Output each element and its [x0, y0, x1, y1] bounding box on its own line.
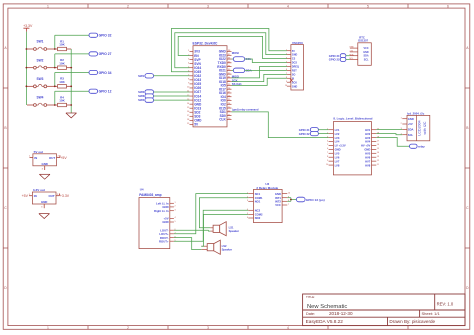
svg-text:TITLE:: TITLE:: [306, 295, 315, 299]
svg-text:HV3: HV3: [365, 136, 371, 140]
wire net GPIO 34: [55, 73, 89, 87]
svg-text:8. Logic_Level_Bidirectional: 8. Logic_Level_Bidirectional: [333, 116, 372, 120]
svg-text:REV: 1.0: REV: 1.0: [437, 301, 454, 306]
wire LOUT- to LS1-: [174, 229, 211, 232]
svg-text:10: 10: [285, 85, 287, 87]
svg-text:DREQ: DREQ: [292, 66, 299, 69]
svg-text:Date:: Date:: [306, 312, 315, 316]
svg-text:2: 2: [127, 326, 129, 330]
svg-text:6: 6: [247, 217, 248, 219]
svg-text:DS1307: DS1307: [358, 39, 368, 43]
svg-text:CS: CS: [292, 58, 296, 61]
svg-text:Speaker: Speaker: [229, 229, 239, 233]
junction dots ground rail: [70, 67, 72, 106]
net label SCK and wire to VS1053 pin9: [232, 74, 287, 82]
svg-text:GND: GND: [408, 117, 414, 121]
svg-text:11: 11: [377, 164, 379, 166]
svg-text:(gnd) relay command: (gnd) relay command: [232, 107, 259, 111]
wire net GPIO 27: [55, 54, 89, 68]
svg-text:LV1: LV1: [335, 128, 340, 132]
svg-text:INT2: INT2: [275, 200, 281, 204]
junction dots GPIO branches: [54, 48, 56, 106]
svg-text:Drawn By: pisicaverde: Drawn By: pisicaverde: [389, 319, 435, 324]
wire INT1 INT2 tie: [287, 198, 296, 202]
svg-text:LV +3.3V: LV +3.3V: [335, 144, 346, 148]
svg-text:3: 3: [207, 326, 209, 330]
svg-text:IN: IN: [34, 156, 37, 160]
svg-text:Sheet: 1/1: Sheet: 1/1: [422, 311, 441, 316]
net label SS and wire to VS1053 pin10: [232, 78, 287, 86]
resistor R3 10K: [55, 77, 71, 88]
svg-text:9: 9: [286, 81, 287, 83]
svg-text:10K: 10K: [59, 80, 65, 84]
svg-text:HV8: HV8: [365, 163, 371, 167]
svg-text:16: 16: [377, 144, 379, 146]
svg-text:LV6: LV6: [335, 155, 340, 159]
svg-text:1: 1: [175, 202, 176, 204]
power flag +3.3V: [23, 24, 33, 32]
svg-text:GPIO 12: GPIO 12: [99, 90, 112, 94]
svg-text:CLK: CLK: [219, 118, 226, 122]
wire ROUT- to LS2-: [174, 238, 201, 250]
voltage regulator block 5V out: [29, 150, 60, 170]
net port SW4 at ESP32: [138, 98, 189, 102]
wire net GPIO 12: [55, 91, 89, 105]
svg-text:GPIO 27: GPIO 27: [99, 52, 112, 56]
net port relay: [410, 144, 426, 148]
svg-text:Right LL In: Right LL In: [154, 209, 169, 213]
svg-text:LS1: LS1: [229, 226, 234, 230]
svg-text:5V out: 5V out: [34, 150, 43, 154]
svg-text:+3,3V: +3,3V: [23, 24, 33, 28]
svg-text:NC1: NC1: [255, 192, 261, 196]
svg-text:OUT: OUT: [48, 194, 54, 198]
wire resistor ground rail: [70, 49, 72, 113]
svg-text:7: 7: [327, 152, 328, 154]
svg-text:3: 3: [207, 4, 209, 8]
svg-text:GND: GND: [364, 148, 370, 152]
svg-text:U4: U4: [140, 187, 144, 191]
svg-text:1: 1: [47, 4, 49, 8]
svg-text:12: 12: [377, 160, 379, 162]
relay module U3 2 Relay Module: [247, 182, 290, 223]
wire LOUT+ to relay NC1: [174, 194, 248, 234]
svg-text:EasyEDA V5.8.22: EasyEDA V5.8.22: [306, 319, 344, 324]
wire HV3 to relay port: [376, 138, 409, 147]
svg-text:Speaker: Speaker: [222, 248, 232, 252]
svg-text:4: 4: [327, 140, 328, 142]
svg-text:10K: 10K: [59, 99, 65, 103]
svg-text:ESP32_DevKitC: ESP32_DevKitC: [193, 41, 219, 45]
wire net A (IO35 to VS1053 pin1): [171, 29, 287, 72]
svg-text:SCL: SCL: [408, 133, 414, 137]
net port SW1 at ESP32: [138, 74, 189, 78]
net label MISO and wire to VS1053 pin8: [232, 66, 287, 78]
wire LS2+ to relay COM2: [201, 214, 248, 246]
svg-text:2: 2: [401, 123, 402, 125]
svg-text:GND: GND: [292, 54, 298, 57]
ground for 5V regulator: [39, 174, 50, 179]
svg-text:2: 2: [175, 206, 176, 208]
svg-text:14: 14: [377, 152, 379, 154]
svg-text:HV5: HV5: [365, 151, 371, 155]
svg-text:GPIO 22: GPIO 22: [329, 58, 340, 62]
svg-text:10: 10: [326, 164, 328, 166]
svg-text:COM2: COM2: [255, 213, 263, 217]
svg-text:3: 3: [247, 200, 248, 202]
svg-text:relay: relay: [418, 144, 425, 148]
svg-text:LS2: LS2: [222, 244, 227, 248]
svg-text:MOSI: MOSI: [232, 51, 239, 55]
svg-text:4: 4: [287, 326, 289, 330]
svg-text:RST: RST: [292, 70, 297, 73]
svg-text:4: 4: [287, 4, 289, 8]
svg-text:6: 6: [327, 148, 328, 150]
resistor R1 10K: [55, 39, 71, 50]
svg-text:GPIO 32: GPIO 32: [99, 34, 112, 38]
switch SW4: [27, 96, 55, 107]
svg-text:+5V: +5V: [408, 122, 413, 126]
svg-text:NC2: NC2: [255, 209, 261, 213]
svg-text:HV +5V: HV +5V: [361, 144, 371, 148]
svg-text:GND: GND: [41, 200, 47, 204]
svg-text:New Schematic: New Schematic: [307, 304, 347, 310]
svg-text:9: 9: [327, 160, 328, 162]
net port GPIO 13 (po): [296, 197, 324, 202]
svg-text:+5V: +5V: [60, 156, 67, 160]
svg-text:OUT: OUT: [49, 156, 55, 160]
svg-text:LV5: LV5: [335, 151, 340, 155]
wire ROUT+ to relay NC2: [174, 210, 248, 241]
svg-text:LV7: LV7: [335, 159, 340, 163]
speaker LS1: [210, 222, 239, 236]
svg-text:VCC: VCC: [275, 203, 281, 207]
svg-text:SDA: SDA: [408, 128, 414, 132]
net label relay command and wire IO15 to LV3: [232, 107, 329, 137]
rtc U2 DS1307: [349, 35, 371, 65]
svg-text:3: 3: [175, 210, 176, 212]
svg-text:VCC: VCC: [364, 47, 369, 50]
switch SW3: [27, 77, 55, 88]
svg-text:GND: GND: [162, 220, 168, 224]
svg-text:10K: 10K: [59, 61, 65, 65]
junction dots +3.3V rail: [26, 48, 28, 87]
svg-text:10K: 10K: [59, 43, 65, 47]
svg-text:INT1: INT1: [275, 196, 281, 200]
svg-text:with I2C: with I2C: [423, 121, 427, 134]
lcd display LCD2004 with I2C: [401, 112, 430, 141]
net port GPIO 22 at LV2: [299, 132, 329, 136]
net port GPIO 32: [89, 33, 112, 37]
svg-text:15: 15: [377, 148, 379, 150]
net port SDA at IO21: [232, 68, 253, 73]
svg-text:10: 10: [288, 192, 290, 194]
svg-text:SCL: SCL: [364, 59, 369, 62]
svg-text:+5V: +5V: [22, 194, 29, 198]
wire +3.3V rail: [25, 32, 27, 105]
wire net C (EN to VS1053 pin3): [178, 36, 287, 58]
svg-text:7: 7: [288, 204, 289, 206]
wire HV2 to LCD SCL: [376, 134, 402, 135]
svg-text:8: 8: [327, 156, 328, 158]
svg-text:5: 5: [327, 144, 328, 146]
svg-text:17: 17: [377, 140, 379, 142]
svg-text:13: 13: [377, 156, 379, 158]
svg-text:LV4: LV4: [335, 140, 340, 144]
net port SCL at IO22: [232, 57, 252, 62]
svg-text:GPIO 34: GPIO 34: [99, 71, 112, 75]
svg-text:5: 5: [367, 4, 369, 8]
svg-text:HV1: HV1: [365, 128, 371, 132]
no-connect cross VS1053 pin 8: [290, 79, 293, 82]
switch SW1: [27, 40, 55, 51]
net port GPIO 12: [89, 89, 112, 93]
ground under resistor rail: [66, 113, 77, 118]
svg-text:COM1: COM1: [255, 196, 263, 200]
svg-text:SDA: SDA: [349, 53, 354, 56]
power flag +5V at 3.3V regulator input: [22, 194, 29, 198]
svg-text:HV2: HV2: [365, 132, 371, 136]
connector P1 VS1053: [285, 41, 304, 90]
svg-text:GND: GND: [292, 85, 298, 88]
svg-text:HV6: HV6: [365, 155, 371, 159]
wire SDA to VS1053 pin6: [245, 69, 287, 71]
svg-text:ROUT+: ROUT+: [159, 239, 169, 243]
svg-text:SW4: SW4: [138, 98, 145, 102]
svg-text:1: 1: [47, 326, 49, 330]
mcu U1 ESP32_DevKitC: [187, 41, 232, 127]
svg-text:LV2: LV2: [335, 132, 340, 136]
svg-text:SW2: SW2: [37, 58, 44, 62]
svg-text:NO1: NO1: [255, 200, 261, 204]
svg-text:SW1: SW1: [37, 40, 44, 44]
svg-text:1: 1: [401, 118, 402, 120]
net port GPIO 34: [89, 70, 112, 74]
net port GPIO 22 at RTC SCL: [329, 58, 350, 62]
net label MOSI: [232, 51, 239, 55]
svg-text:GND: GND: [41, 162, 47, 166]
voltage regulator block 3.3V out: [29, 188, 60, 208]
svg-text:GND: GND: [363, 51, 369, 54]
svg-text:SW4: SW4: [37, 96, 44, 100]
svg-text:+3.3V: +3.3V: [60, 194, 70, 198]
speaker LS2: [201, 240, 232, 254]
svg-text:GPIO 13 (po): GPIO 13 (po): [306, 198, 325, 202]
svg-text:IN: IN: [34, 194, 37, 198]
svg-text:GND: GND: [349, 47, 354, 49]
svg-text:2018-12-30: 2018-12-30: [329, 311, 353, 316]
svg-text:SW1: SW1: [138, 74, 145, 78]
switch SW2: [27, 58, 55, 69]
svg-text:SCK: SCK: [292, 81, 297, 84]
svg-text:SDA: SDA: [364, 55, 369, 58]
svg-text:6: 6: [447, 4, 449, 8]
resistor R2 10K: [55, 58, 71, 69]
svg-text:LV8: LV8: [335, 163, 340, 167]
svg-text:2: 2: [127, 4, 129, 8]
svg-text:DCS: DCS: [292, 62, 297, 65]
svg-text:3: 3: [327, 136, 328, 138]
svg-text:5: 5: [175, 221, 176, 223]
svg-text:SW3: SW3: [37, 77, 44, 81]
svg-text:SO: SO: [292, 73, 296, 76]
svg-text:3.3V out: 3.3V out: [33, 188, 45, 192]
power flag +5V: [60, 155, 67, 160]
wire LS1+ to relay COM1: [199, 198, 248, 228]
svg-text:5V: 5V: [292, 50, 295, 53]
svg-text:HV7: HV7: [365, 159, 371, 163]
svg-text:lcd_2004_i2c: lcd_2004_i2c: [407, 112, 425, 116]
net port GPIO 21 at RTC SDA: [329, 54, 350, 58]
ground for 3.3V regulator: [39, 214, 50, 219]
amplifier U4 PAM8403_amp: [139, 187, 176, 248]
svg-text:PAM8403_amp: PAM8403_amp: [139, 193, 161, 197]
net port SW2 at ESP32: [138, 90, 189, 94]
svg-text:LCD2004: LCD2004: [418, 120, 422, 135]
svg-text:NO2: NO2: [255, 216, 261, 220]
resistor R4 10K: [55, 95, 71, 106]
svg-text:4: 4: [175, 217, 176, 219]
wire net GPIO 32: [55, 35, 89, 49]
net port GPIO 27: [89, 52, 112, 56]
wire net B (IO34 to VS1053 pin2): [175, 33, 287, 68]
net port GPIO 21 at LV1: [299, 128, 329, 132]
module U5 8. Logic_Level_Bidirectional: [326, 116, 379, 175]
power flag +3.3V regulator output: [59, 194, 69, 199]
wire HV1 to LCD SDA: [376, 129, 402, 131]
svg-text:LV3: LV3: [335, 136, 340, 140]
wire SCL to VS1053 pin4: [245, 59, 287, 62]
svg-text:GND: GND: [335, 148, 341, 152]
junction at relay INT: [290, 199, 292, 201]
net port SW3 at ESP32: [138, 94, 189, 98]
svg-text:GND: GND: [275, 192, 281, 196]
svg-text:HV4: HV4: [365, 140, 371, 144]
svg-text:GPIO 22: GPIO 22: [299, 132, 310, 136]
